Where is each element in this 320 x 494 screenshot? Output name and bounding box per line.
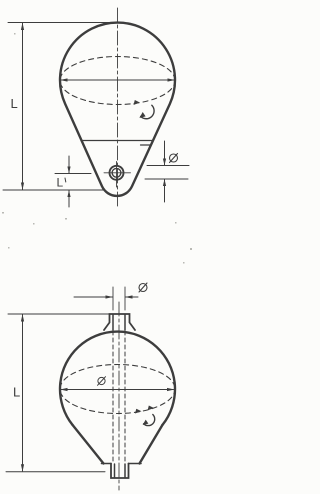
label L' (fig1) bbox=[57, 176, 66, 190]
label dia symbol (fig1 right) bbox=[170, 154, 178, 163]
svg-text:L: L bbox=[11, 96, 18, 111]
rotation arrow on ellipse arc (fig1) bbox=[134, 100, 140, 105]
bottom baseline extension (fig2) bbox=[6, 471, 105, 473]
vertical centerline (fig1) bbox=[117, 8, 119, 207]
sphere outline (fig2) bbox=[60, 332, 175, 425]
equator diameter line with arrows (fig1) bbox=[60, 78, 175, 81]
top tube fitting (fig2) bbox=[104, 314, 135, 330]
dimension line L (fig2) bbox=[21, 314, 24, 472]
dimension line L (fig1) bbox=[21, 23, 24, 191]
buoy outline (fig1): sphere + taper + rounded bottom bbox=[60, 23, 175, 196]
small dimension L' (fig1) bbox=[55, 156, 91, 207]
bottom tube fitting (fig2) bbox=[102, 464, 142, 479]
seam chord line (fig1) bbox=[82, 140, 153, 142]
vertical centerline (fig2) bbox=[118, 302, 120, 490]
svg-text:L: L bbox=[57, 176, 64, 190]
lifting eye with crosshair (fig1) bbox=[104, 162, 131, 188]
curl / swivel doodle (fig1) bbox=[139, 105, 154, 118]
hidden tube bore lines (fig2) bbox=[113, 331, 125, 463]
equator dashed ellipse (fig1) bbox=[60, 57, 175, 105]
bottom baseline extension (fig1) bbox=[3, 189, 103, 191]
bore diameter dimension (fig2 top) bbox=[74, 287, 138, 310]
svg-text:L: L bbox=[13, 385, 20, 400]
short doubler line right (fig1) bbox=[141, 144, 151, 146]
label dia symbol (fig2 top) bbox=[139, 283, 147, 292]
equator diameter line with arrows (fig2) bbox=[60, 388, 175, 391]
scan speckles bbox=[2, 33, 192, 264]
top extension line (fig2) bbox=[8, 313, 110, 315]
curl / swivel doodle (fig2) bbox=[143, 415, 155, 426]
equator dashed ellipse (fig2) bbox=[60, 365, 175, 414]
top extension line (fig1) bbox=[8, 22, 110, 24]
right taper line (fig2) bbox=[140, 425, 163, 464]
eye hole diameter dimension (fig1 right) bbox=[145, 141, 189, 202]
rotation arrows on ellipse arc (fig2) bbox=[135, 409, 142, 414]
dia symbol at sphere centre (fig2) bbox=[98, 377, 106, 386]
left taper line (fig2) bbox=[73, 425, 104, 464]
